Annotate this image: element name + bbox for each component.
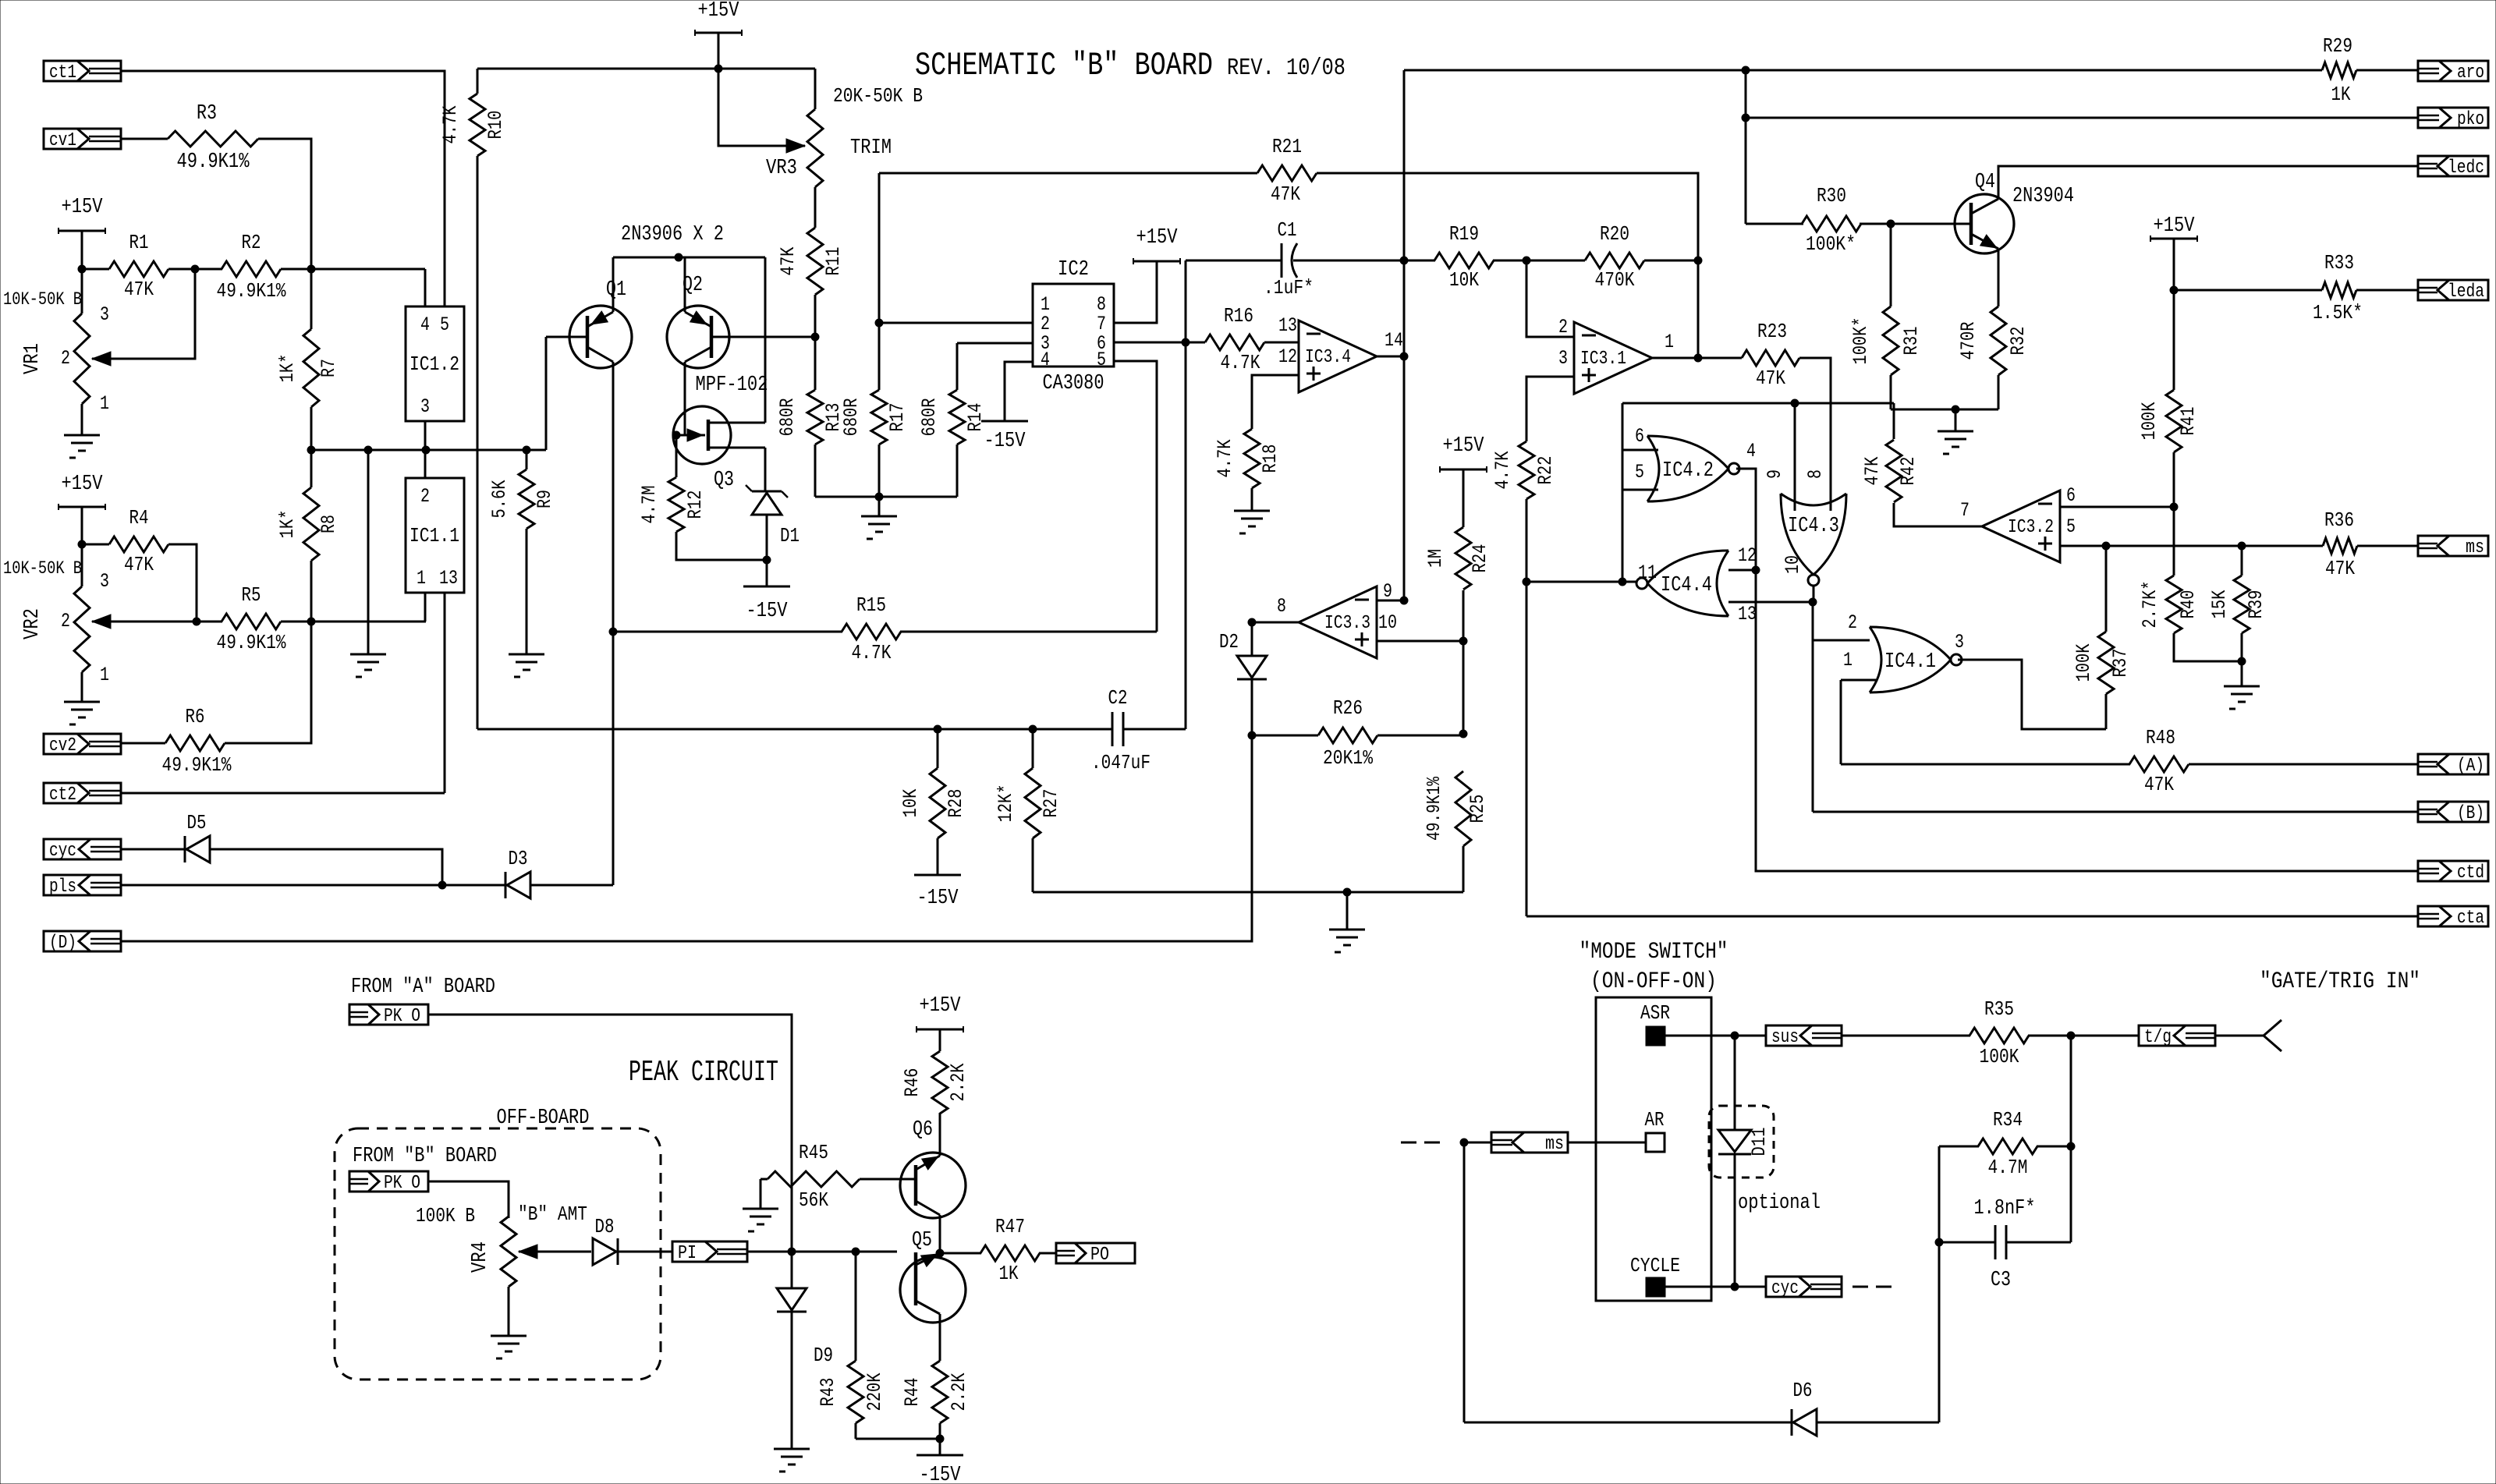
svg-text:D8: D8: [595, 1215, 615, 1238]
svg-text:2N3904: 2N3904: [2012, 185, 2074, 208]
svg-text:t/g: t/g: [2144, 1027, 2172, 1048]
svg-text:pls: pls: [49, 877, 76, 898]
svg-text:IC3.3: IC3.3: [1324, 613, 1370, 634]
svg-text:470R: 470R: [1957, 322, 1980, 360]
svg-text:1: 1: [1843, 649, 1852, 671]
svg-text:+15V: +15V: [698, 0, 740, 23]
svg-text:ms: ms: [1545, 1134, 1564, 1155]
svg-text:100K: 100K: [2138, 402, 2161, 441]
svg-text:47K: 47K: [1271, 182, 1300, 206]
svg-text:8: 8: [1277, 595, 1286, 618]
svg-text:R39: R39: [2245, 590, 2267, 619]
svg-text:3: 3: [1558, 347, 1568, 370]
svg-text:R34: R34: [1993, 1108, 2023, 1132]
svg-text:IC1.1: IC1.1: [409, 524, 459, 547]
svg-text:47K: 47K: [1756, 367, 1785, 390]
svg-text:(A): (A): [2457, 756, 2484, 777]
svg-text:R9: R9: [534, 490, 556, 508]
svg-text:2: 2: [61, 610, 70, 632]
svg-text:100K*: 100K*: [1849, 317, 1872, 365]
svg-text:20K1%: 20K1%: [1323, 746, 1373, 770]
svg-text:R15: R15: [856, 593, 886, 617]
svg-text:47K: 47K: [124, 553, 154, 576]
svg-text:"MODE SWITCH": "MODE SWITCH": [1579, 939, 1728, 965]
svg-text:IC4.3: IC4.3: [1788, 515, 1839, 538]
svg-text:1.5K*: 1.5K*: [2313, 301, 2363, 324]
svg-text:R27: R27: [1040, 789, 1062, 818]
svg-text:R33: R33: [2324, 251, 2354, 274]
svg-text:REV. 10/08: REV. 10/08: [1227, 55, 1345, 82]
svg-text:(D): (D): [49, 933, 76, 954]
svg-text:220K: 220K: [863, 1373, 886, 1411]
svg-text:R16: R16: [1224, 304, 1253, 328]
svg-text:1: 1: [417, 567, 426, 590]
svg-text:+15V: +15V: [62, 196, 104, 219]
svg-text:12K*: 12K*: [994, 785, 1017, 823]
svg-text:IC4.2: IC4.2: [1662, 459, 1714, 483]
svg-text:+15V: +15V: [920, 994, 962, 1018]
svg-text:1K: 1K: [999, 1262, 1019, 1285]
svg-text:"GATE/TRIG IN": "GATE/TRIG IN": [2260, 969, 2420, 995]
svg-text:4.7K: 4.7K: [1221, 351, 1260, 374]
svg-text:3: 3: [1955, 631, 1964, 653]
svg-text:R24: R24: [1469, 544, 1491, 573]
svg-text:-15V: -15V: [746, 600, 789, 623]
svg-text:3: 3: [100, 570, 109, 593]
svg-text:R30: R30: [1817, 184, 1846, 207]
svg-text:Q1: Q1: [606, 278, 626, 302]
svg-text:IC4.1: IC4.1: [1884, 650, 1936, 674]
svg-text:D1: D1: [780, 524, 799, 547]
svg-text:4: 4: [1041, 349, 1050, 371]
svg-text:4: 4: [1746, 440, 1756, 462]
svg-text:Q6: Q6: [913, 1118, 933, 1142]
svg-text:OFF-BOARD: OFF-BOARD: [497, 1107, 590, 1130]
svg-text:D9: D9: [814, 1344, 833, 1367]
svg-text:4.7M: 4.7M: [638, 486, 661, 524]
svg-text:D3: D3: [509, 847, 528, 870]
svg-text:R4: R4: [129, 506, 149, 529]
svg-text:R44: R44: [901, 1378, 924, 1407]
svg-text:R48: R48: [2146, 726, 2175, 749]
svg-text:AR: AR: [1645, 1108, 1665, 1132]
svg-text:+15V: +15V: [1443, 434, 1485, 458]
svg-text:13: 13: [1738, 603, 1757, 625]
svg-text:D2: D2: [1219, 630, 1239, 653]
svg-text:PEAK CIRCUIT: PEAK CIRCUIT: [629, 1056, 778, 1089]
svg-text:PK O: PK O: [384, 1173, 420, 1194]
svg-text:R19: R19: [1449, 222, 1479, 246]
svg-text:47K: 47K: [124, 278, 154, 301]
svg-text:VR1: VR1: [21, 343, 44, 374]
svg-text:1.8nF*: 1.8nF*: [1974, 1197, 2036, 1220]
svg-text:4.7M: 4.7M: [1988, 1156, 2028, 1179]
svg-text:D6: D6: [1793, 1379, 1813, 1402]
svg-text:10K: 10K: [899, 789, 922, 818]
svg-text:R46: R46: [901, 1068, 924, 1097]
svg-text:cta: cta: [2457, 908, 2484, 929]
svg-text:2.2K: 2.2K: [947, 1064, 970, 1102]
svg-text:49.9K1%: 49.9K1%: [217, 279, 286, 303]
svg-text:4.7K: 4.7K: [1214, 440, 1236, 478]
svg-text:R32: R32: [2007, 327, 2030, 356]
svg-text:2N3906 X 2: 2N3906 X 2: [621, 223, 724, 246]
svg-text:D5: D5: [187, 811, 207, 834]
svg-text:470K: 470K: [1595, 268, 1635, 292]
svg-text:1K: 1K: [2331, 83, 2351, 106]
svg-text:6: 6: [2066, 484, 2076, 507]
svg-text:3: 3: [420, 395, 430, 418]
svg-text:R28: R28: [945, 789, 967, 818]
svg-text:47K: 47K: [2325, 557, 2355, 580]
svg-text:TRIM: TRIM: [850, 136, 892, 160]
svg-text:10: 10: [1378, 611, 1397, 634]
svg-text:-15V: -15V: [920, 1464, 962, 1484]
svg-text:(B): (B): [2457, 803, 2484, 824]
svg-text:R8: R8: [317, 515, 340, 533]
svg-text:100K B: 100K B: [416, 1204, 475, 1227]
svg-text:R20: R20: [1600, 222, 1629, 246]
svg-text:R10: R10: [484, 111, 507, 140]
svg-text:PK O: PK O: [384, 1006, 420, 1027]
svg-text:ledc: ledc: [2448, 158, 2484, 179]
svg-text:2: 2: [1848, 611, 1857, 634]
svg-text:ctd: ctd: [2457, 862, 2484, 884]
svg-text:49.9K1%: 49.9K1%: [217, 631, 286, 654]
svg-text:R21: R21: [1272, 135, 1302, 158]
svg-text:1: 1: [100, 392, 109, 415]
svg-text:-15V: -15V: [917, 887, 959, 910]
svg-text:49.9K1%: 49.9K1%: [162, 753, 232, 777]
svg-text:12: 12: [1738, 544, 1757, 567]
svg-text:5: 5: [1097, 349, 1106, 371]
svg-text:R40: R40: [2177, 590, 2200, 619]
svg-text:5: 5: [1635, 461, 1644, 483]
svg-text:cyc: cyc: [1771, 1278, 1799, 1299]
svg-text:2: 2: [1558, 316, 1568, 338]
svg-text:R6: R6: [186, 705, 205, 728]
svg-text:2.2K: 2.2K: [948, 1373, 970, 1411]
svg-text:15K: 15K: [2208, 590, 2231, 619]
svg-text:4: 4: [420, 313, 430, 336]
svg-text:1M: 1M: [1424, 549, 1447, 568]
svg-text:R7: R7: [317, 359, 340, 377]
svg-text:5.6K: 5.6K: [488, 480, 511, 519]
svg-text:ct1: ct1: [49, 62, 76, 83]
svg-text:.1uF*: .1uF*: [1264, 276, 1314, 299]
svg-text:IC2: IC2: [1058, 258, 1089, 282]
svg-text:+15V: +15V: [2154, 214, 2196, 238]
svg-text:cv1: cv1: [49, 130, 76, 151]
svg-text:47K: 47K: [777, 247, 799, 276]
svg-text:C1: C1: [1278, 218, 1297, 242]
svg-text:7: 7: [1960, 499, 1969, 522]
svg-text:Q2: Q2: [682, 274, 703, 297]
svg-text:3: 3: [100, 303, 109, 326]
svg-text:PI: PI: [678, 1243, 697, 1264]
svg-text:cv2: cv2: [49, 735, 76, 756]
svg-text:10K-50K B: 10K-50K B: [3, 558, 82, 579]
svg-text:ASR: ASR: [1640, 1001, 1670, 1025]
svg-text:2.7K*: 2.7K*: [2139, 581, 2161, 629]
svg-text:aro: aro: [2457, 62, 2484, 83]
svg-text:9: 9: [1764, 469, 1786, 479]
svg-text:680R: 680R: [918, 398, 941, 437]
svg-text:100K: 100K: [2072, 644, 2095, 682]
svg-text:R18: R18: [1259, 444, 1282, 473]
svg-text:CYCLE: CYCLE: [1630, 1254, 1680, 1277]
svg-text:2: 2: [61, 347, 70, 370]
svg-text:8: 8: [1804, 469, 1827, 479]
svg-text:(ON-OFF-ON): (ON-OFF-ON): [1590, 969, 1717, 995]
svg-text:"B" AMT: "B" AMT: [518, 1202, 587, 1226]
svg-text:R47: R47: [995, 1215, 1025, 1238]
svg-text:10K-50K B: 10K-50K B: [3, 289, 82, 310]
svg-text:47K: 47K: [1861, 457, 1884, 486]
svg-text:1: 1: [1665, 331, 1674, 353]
svg-text:49.9K1%: 49.9K1%: [1424, 777, 1445, 841]
svg-text:C3: C3: [1991, 1269, 2011, 1292]
svg-text:VR2: VR2: [21, 608, 44, 639]
svg-text:4.7K: 4.7K: [439, 106, 462, 144]
svg-text:+15V: +15V: [1136, 226, 1179, 250]
svg-text:10K: 10K: [1449, 268, 1479, 292]
svg-text:4.7K: 4.7K: [1491, 452, 1514, 490]
svg-text:FROM "B" BOARD: FROM "B" BOARD: [353, 1145, 497, 1168]
svg-text:R29: R29: [2323, 34, 2352, 58]
svg-text:leda: leda: [2448, 282, 2484, 303]
svg-text:6: 6: [1635, 425, 1644, 448]
svg-text:5: 5: [440, 313, 449, 336]
svg-text:5: 5: [2066, 515, 2076, 538]
svg-text:13: 13: [1278, 314, 1297, 337]
svg-text:R14: R14: [964, 403, 987, 432]
svg-text:IC3.2: IC3.2: [2008, 517, 2054, 538]
svg-text:C2: C2: [1108, 686, 1128, 710]
svg-text:Q4: Q4: [1975, 171, 1995, 194]
svg-text:Q3: Q3: [714, 469, 734, 492]
svg-text:49.9K1%: 49.9K1%: [177, 151, 250, 174]
svg-text:20K-50K B: 20K-50K B: [833, 84, 923, 108]
svg-text:R2: R2: [242, 231, 261, 254]
svg-text:PO: PO: [1090, 1245, 1109, 1266]
svg-text:SCHEMATIC "B" BOARD: SCHEMATIC "B" BOARD: [915, 47, 1213, 84]
svg-text:100K: 100K: [1980, 1045, 2019, 1068]
svg-text:IC3.1: IC3.1: [1580, 349, 1626, 370]
svg-text:ms: ms: [2466, 537, 2484, 558]
svg-text:R23: R23: [1757, 320, 1787, 343]
svg-text:cyc: cyc: [49, 841, 76, 862]
svg-text:R35: R35: [1984, 997, 2014, 1021]
svg-text:2: 2: [420, 485, 430, 508]
svg-text:pko: pko: [2457, 109, 2484, 130]
svg-text:R37: R37: [2109, 649, 2132, 678]
svg-text:VR4: VR4: [469, 1241, 492, 1273]
svg-text:14: 14: [1384, 329, 1403, 352]
svg-text:MPF-102: MPF-102: [696, 374, 768, 397]
svg-text:R31: R31: [1900, 327, 1923, 356]
svg-text:R3: R3: [197, 102, 217, 126]
svg-text:R5: R5: [242, 583, 261, 607]
svg-text:1: 1: [100, 664, 109, 686]
svg-text:R1: R1: [129, 231, 149, 254]
svg-text:IC3.4: IC3.4: [1305, 347, 1351, 368]
svg-text:D11: D11: [1748, 1128, 1771, 1156]
svg-text:R12: R12: [684, 491, 707, 519]
svg-text:R41: R41: [2177, 407, 2200, 436]
svg-text:R45: R45: [799, 1141, 828, 1164]
svg-text:1K*: 1K*: [276, 354, 299, 383]
svg-text:+15V: +15V: [62, 473, 104, 496]
svg-text:ct2: ct2: [49, 785, 76, 806]
svg-text:IC4.4: IC4.4: [1661, 574, 1712, 597]
svg-text:R11: R11: [822, 247, 845, 276]
svg-text:R36: R36: [2324, 508, 2354, 532]
svg-text:12: 12: [1278, 345, 1297, 368]
svg-text:R42: R42: [1897, 457, 1920, 486]
svg-text:13: 13: [439, 567, 458, 590]
svg-text:IC1.2: IC1.2: [409, 352, 459, 376]
svg-text:.047uF: .047uF: [1091, 751, 1150, 774]
svg-text:CA3080: CA3080: [1043, 372, 1104, 395]
svg-text:R17: R17: [886, 403, 909, 432]
svg-text:R26: R26: [1333, 696, 1363, 720]
svg-text:R43: R43: [817, 1378, 839, 1407]
svg-text:10: 10: [1782, 555, 1804, 574]
svg-text:FROM "A" BOARD: FROM "A" BOARD: [351, 976, 495, 999]
svg-text:47K: 47K: [2144, 773, 2174, 796]
svg-text:1K*: 1K*: [276, 510, 299, 539]
svg-text:4.7K: 4.7K: [852, 641, 892, 664]
svg-text:optional: optional: [1738, 1192, 1821, 1215]
svg-text:VR3: VR3: [766, 157, 797, 180]
svg-text:100K*: 100K*: [1806, 232, 1856, 256]
svg-text:sus: sus: [1771, 1027, 1799, 1048]
svg-text:11: 11: [1638, 561, 1657, 584]
svg-text:680R: 680R: [840, 398, 863, 437]
svg-text:Q5: Q5: [912, 1229, 932, 1252]
svg-text:680R: 680R: [776, 398, 799, 437]
svg-text:R25: R25: [1466, 795, 1489, 823]
svg-text:56K: 56K: [799, 1188, 828, 1212]
svg-text:R22: R22: [1534, 456, 1557, 485]
svg-text:-15V: -15V: [984, 430, 1026, 453]
